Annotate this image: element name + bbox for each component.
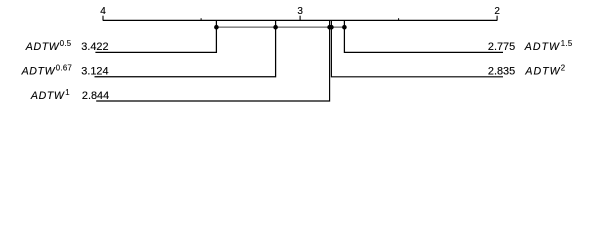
- svg-text:ADTW: ADTW: [25, 41, 60, 53]
- method label ADTW^0.5: [25, 39, 72, 53]
- svg-text:1.5: 1.5: [561, 39, 573, 48]
- rank dot ADTW^2 (2.835): [329, 25, 334, 30]
- major tick 4: [102, 16, 104, 21]
- svg-text:ADTW: ADTW: [524, 65, 560, 77]
- svg-text:3.124: 3.124: [81, 65, 108, 77]
- svg-text:2: 2: [561, 63, 566, 72]
- svg-text:ADTW: ADTW: [30, 90, 65, 102]
- rank dot ADTW^0.67 (3.124): [273, 25, 278, 30]
- method label ADTW^1.5: [524, 39, 573, 53]
- clique line (no significant difference among all methods): [216, 26, 344, 28]
- svg-text:0.5: 0.5: [60, 39, 72, 48]
- svg-text:1: 1: [65, 88, 70, 97]
- connector line ADTW^1: [96, 20, 329, 101]
- svg-text:0.67: 0.67: [56, 63, 72, 72]
- svg-text:2.835: 2.835: [488, 65, 515, 77]
- connector line ADTW^1.5: [344, 20, 503, 52]
- rank dot ADTW^0.5 (3.422): [214, 25, 219, 30]
- connector line ADTW^2: [331, 20, 503, 76]
- minor tick 2.5: [398, 18, 400, 20]
- svg-text:4: 4: [100, 6, 106, 17]
- svg-text:2.844: 2.844: [82, 90, 109, 102]
- method label ADTW^0.67: [21, 63, 73, 77]
- connector line ADTW^0.67: [95, 20, 276, 76]
- major tick 3: [299, 16, 301, 21]
- rank axis: [103, 19, 498, 21]
- major tick 2: [496, 16, 498, 21]
- svg-text:ADTW: ADTW: [21, 65, 56, 77]
- connector line ADTW^0.5: [95, 20, 216, 52]
- method label ADTW^1: [30, 88, 70, 102]
- rank dot ADTW^1 (2.844): [327, 25, 332, 30]
- rank dot ADTW^1.5 (2.775): [342, 25, 347, 30]
- svg-text:2.775: 2.775: [488, 41, 515, 53]
- minor tick 3.5: [200, 18, 202, 20]
- svg-text:3: 3: [297, 6, 303, 17]
- method label ADTW^2: [524, 63, 565, 77]
- svg-text:2: 2: [494, 6, 500, 17]
- svg-text:ADTW: ADTW: [524, 41, 560, 53]
- svg-text:3.422: 3.422: [81, 41, 108, 53]
